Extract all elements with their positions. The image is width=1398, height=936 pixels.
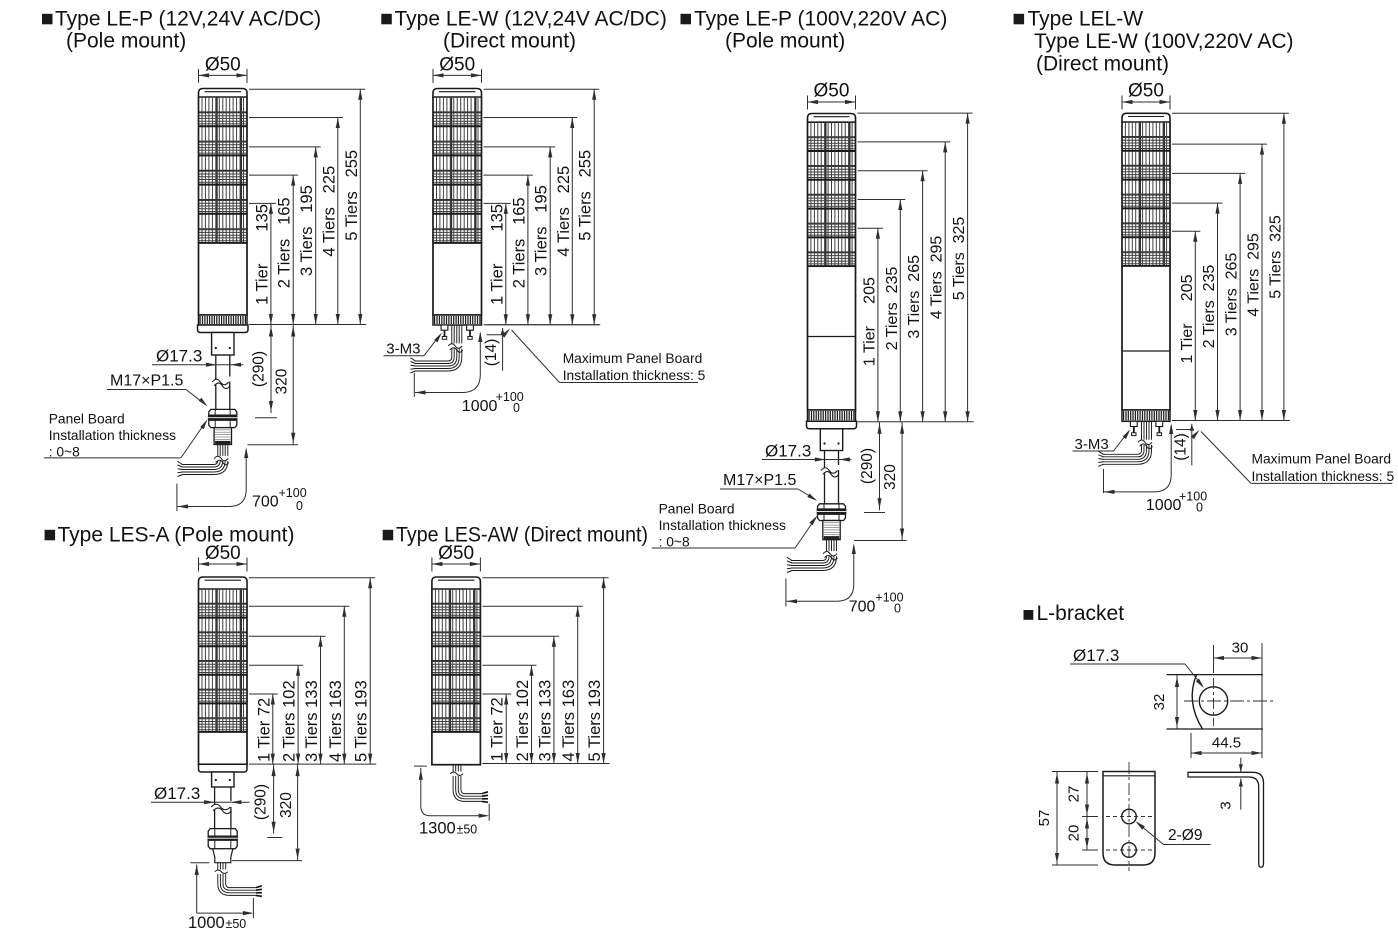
tower LE-W lower body xyxy=(433,243,482,315)
svg-text:(14): (14) xyxy=(1172,433,1189,461)
svg-text:2 Tiers 235: 2 Tiers 235 xyxy=(1201,265,1218,349)
dimension 1300±50 cable length LES-AW xyxy=(414,766,489,837)
tower LES-AW cap xyxy=(432,577,481,589)
svg-text:1 Tier 72: 1 Tier 72 xyxy=(255,698,273,762)
svg-text:M17×P1.5: M17×P1.5 xyxy=(723,472,796,489)
dimension 320 LE-P xyxy=(248,325,299,445)
svg-text:Installation thickness: Installation thickness xyxy=(659,518,786,533)
dimension Ø50 top diameter LES-AW xyxy=(432,543,481,572)
svg-text:4 Tiers 225: 4 Tiers 225 xyxy=(320,166,338,257)
tower LES-A 5 hatched tiers xyxy=(199,589,248,732)
svg-text:(290): (290) xyxy=(251,351,268,387)
svg-text:(290): (290) xyxy=(859,448,876,484)
tier height dimensions LE-P xyxy=(249,89,366,324)
svg-text:(Pole mount): (Pole mount) xyxy=(66,30,186,53)
mounting pole LES-A with break xyxy=(211,787,232,829)
tower LE-P lower body xyxy=(199,243,248,315)
svg-text:4 Tiers 225: 4 Tiers 225 xyxy=(555,166,573,257)
svg-text:3: 3 xyxy=(1218,801,1235,809)
svg-text:27: 27 xyxy=(1066,786,1083,803)
svg-text:57: 57 xyxy=(1036,810,1053,827)
svg-text:Ø50: Ø50 xyxy=(205,55,241,76)
dimension (14) below panel LEL-W xyxy=(1172,421,1289,466)
tower LE-W 5 hatched tiers xyxy=(433,97,482,243)
svg-text:320: 320 xyxy=(882,464,899,490)
tower LE-P base skirt xyxy=(198,325,249,333)
threaded stub LE-P xyxy=(214,428,231,445)
label Maximum Panel Board Installation thickness 5 LE-W xyxy=(501,329,705,384)
svg-text:320: 320 xyxy=(274,368,291,394)
tower LE-P 220V lower body with joint line xyxy=(808,266,856,410)
svg-text:Installation thickness: 5: Installation thickness: 5 xyxy=(1252,469,1395,484)
svg-text:Maximum Panel Board: Maximum Panel Board xyxy=(563,351,703,366)
svg-text:(14): (14) xyxy=(483,339,500,367)
dimension (290) LE-P 220V xyxy=(859,422,885,513)
svg-text:4 Tiers 295: 4 Tiers 295 xyxy=(1246,233,1263,317)
svg-text:44.5: 44.5 xyxy=(1212,735,1241,752)
svg-text:Type LES-AW (Direct mount): Type LES-AW (Direct mount) xyxy=(396,524,648,547)
tower LES-AW 5 hatched tiers xyxy=(432,589,481,732)
dimension 700 +100/0 cable length LE-P 220V xyxy=(786,544,904,616)
cable bundle LE-W bending left xyxy=(411,325,466,373)
label Panel Board Installation thickness 0~8 LE-P 220V xyxy=(652,502,818,550)
svg-text:1 Tier 205: 1 Tier 205 xyxy=(1179,274,1196,363)
dimension Ø17.3 pole diameter LE-P xyxy=(152,347,243,367)
svg-text:±50: ±50 xyxy=(457,823,478,837)
mounting bolts 3-M3 LE-W xyxy=(441,325,473,339)
svg-text:Ø50: Ø50 xyxy=(439,55,475,76)
svg-text:Type LE-P (100V,220V AC): Type LE-P (100V,220V AC) xyxy=(694,8,947,31)
tier height dimensions LE-W xyxy=(484,89,601,324)
hex nut and washer LES-A xyxy=(208,829,239,849)
dimension Ø50 top diameter LE-P 220V xyxy=(808,81,856,110)
tower LE-P 5 hatched tiers xyxy=(199,97,248,243)
L-bracket front view centerlines xyxy=(1106,762,1152,871)
svg-text:Installation thickness: Installation thickness xyxy=(49,428,176,443)
svg-text:±50: ±50 xyxy=(226,917,247,931)
svg-text:2 Tiers 165: 2 Tiers 165 xyxy=(510,197,528,288)
tower LE-P 220V 5 hatched tiers xyxy=(808,122,856,266)
dimension 1000±50 cable length LES-A xyxy=(188,863,253,932)
label 3-M3 mounting screws LEL-W xyxy=(1073,429,1131,453)
svg-text:1 Tier 135: 1 Tier 135 xyxy=(488,204,506,305)
svg-text:0: 0 xyxy=(1196,501,1203,515)
label Panel Board Installation thickness 0~8 LE-P xyxy=(44,412,208,460)
dimension Ø50 top diameter LE-P xyxy=(199,55,248,83)
svg-text:3 Tiers 133: 3 Tiers 133 xyxy=(303,680,321,762)
dimension 20 bracket xyxy=(1066,817,1099,851)
svg-text:4 Tiers 163: 4 Tiers 163 xyxy=(327,680,345,762)
svg-text:2 Tiers 102: 2 Tiers 102 xyxy=(281,680,299,762)
cable bundle LES-A bending right xyxy=(215,863,262,897)
svg-text:Ø50: Ø50 xyxy=(814,81,850,102)
svg-text:5 Tiers 193: 5 Tiers 193 xyxy=(353,680,371,762)
dimension (14) below panel LE-W xyxy=(483,325,599,371)
svg-text:Type LEL-W: Type LEL-W xyxy=(1028,8,1144,31)
label M17×P1.5 thread spec LE-P xyxy=(107,373,208,407)
svg-text:1000: 1000 xyxy=(462,398,498,415)
svg-text:1000: 1000 xyxy=(1146,497,1182,514)
L-bracket front view plate xyxy=(1103,772,1155,866)
svg-text:5 Tiers 255: 5 Tiers 255 xyxy=(343,150,361,241)
svg-text:M17×P1.5: M17×P1.5 xyxy=(110,373,183,390)
svg-text:3-M3: 3-M3 xyxy=(1075,436,1109,453)
dimension 32 bracket xyxy=(1151,675,1179,729)
tower LES-AW lower body xyxy=(432,732,481,765)
label Maximum Panel Board Installation thickness 5 LEL-W xyxy=(1191,430,1395,484)
tower LEL-W cap xyxy=(1122,113,1170,122)
mounting bolts 3-M3 LEL-W xyxy=(1130,421,1162,435)
tower LE-P 220V cap xyxy=(808,114,856,123)
dimension 1000 +100/0 cable length LE-W xyxy=(414,332,524,416)
dimension Ø17.3 pole diameter LE-P 220V xyxy=(762,442,851,462)
tower LE-P 220V ribbed base band xyxy=(808,410,856,421)
svg-text:(Direct mount): (Direct mount) xyxy=(443,30,576,53)
svg-text:1000: 1000 xyxy=(188,914,225,932)
svg-text:0: 0 xyxy=(513,401,520,415)
svg-text:1300: 1300 xyxy=(419,820,456,838)
svg-text:(Pole mount): (Pole mount) xyxy=(725,30,845,53)
pole socket LE-P xyxy=(212,333,234,356)
svg-text:Type LE-P (12V,24V AC/DC): Type LE-P (12V,24V AC/DC) xyxy=(55,8,321,31)
svg-text:5 Tiers 255: 5 Tiers 255 xyxy=(577,150,595,241)
dimension 1000 +100/0 cable length LEL-W xyxy=(1104,424,1208,515)
svg-text:3 Tiers 265: 3 Tiers 265 xyxy=(1224,253,1241,337)
svg-text:3 Tiers 195: 3 Tiers 195 xyxy=(298,185,316,276)
threaded taper LES-A xyxy=(213,849,233,863)
threaded stub LE-P 220V xyxy=(823,521,840,540)
title L-bracket xyxy=(1024,602,1125,625)
tower LEL-W lower body with joint line xyxy=(1122,266,1170,410)
svg-text:Ø17.3: Ø17.3 xyxy=(156,347,202,366)
svg-text:Installation thickness: 5: Installation thickness: 5 xyxy=(563,368,706,383)
svg-text:5 Tiers 193: 5 Tiers 193 xyxy=(586,680,604,762)
dimension 320 LES-A xyxy=(232,764,302,861)
dimension (290) LES-A xyxy=(253,764,283,837)
title Type LES-AW Direct mount xyxy=(383,524,648,547)
svg-text:0: 0 xyxy=(894,602,901,616)
svg-text:Type LE-W (100V,220V AC): Type LE-W (100V,220V AC) xyxy=(1034,30,1294,53)
svg-text:3 Tiers 133: 3 Tiers 133 xyxy=(536,680,554,762)
svg-text:Ø17.3: Ø17.3 xyxy=(765,442,811,461)
svg-text:700: 700 xyxy=(849,599,876,616)
hex nut and washer LE-P 220V xyxy=(817,504,847,521)
title Type LES-A Pole mount xyxy=(45,524,295,547)
svg-text:3 Tiers 195: 3 Tiers 195 xyxy=(533,185,551,276)
tower LE-W ribbed base band xyxy=(433,315,482,325)
svg-text:Panel Board: Panel Board xyxy=(659,502,735,517)
svg-text:: 0~8: : 0~8 xyxy=(49,445,80,460)
tower LES-A base skirt xyxy=(199,764,248,772)
dimension Ø50 top diameter LES-A xyxy=(199,543,248,572)
cable bundle LEL-W bending left xyxy=(1098,421,1155,466)
svg-text:320: 320 xyxy=(278,792,295,818)
svg-text:(290): (290) xyxy=(253,784,270,820)
svg-text:3-M3: 3-M3 xyxy=(386,341,420,358)
tower LES-A lower body xyxy=(199,732,248,764)
L-bracket side view profile xyxy=(1188,772,1264,867)
dimension 3 bracket thickness xyxy=(1218,758,1243,810)
svg-text:4 Tiers 163: 4 Tiers 163 xyxy=(560,680,578,762)
mounting pole LE-P with break xyxy=(212,355,230,409)
dimension 27 bracket xyxy=(1066,772,1099,817)
hex nut and washer LE-P xyxy=(208,409,238,427)
dimension Ø50 top diameter LE-W xyxy=(433,55,482,83)
L-bracket front view holes 2-Ø9 xyxy=(1122,809,1137,857)
svg-text:1 Tier 205: 1 Tier 205 xyxy=(861,277,878,366)
svg-text:3 Tiers 265: 3 Tiers 265 xyxy=(906,255,923,339)
svg-text:Ø17.3: Ø17.3 xyxy=(154,784,200,803)
L-bracket top view hole Ø17.3 xyxy=(1199,687,1227,715)
svg-text:5 Tiers 325: 5 Tiers 325 xyxy=(951,217,968,301)
cable bundle LE-P bending left xyxy=(178,445,232,477)
svg-text:2 Tiers 102: 2 Tiers 102 xyxy=(514,680,532,762)
svg-text:Type LES-A (Pole mount): Type LES-A (Pole mount) xyxy=(58,524,295,547)
svg-text:1 Tier 135: 1 Tier 135 xyxy=(253,204,271,305)
svg-text:20: 20 xyxy=(1066,825,1083,842)
L-bracket top view centerlines xyxy=(1184,678,1274,726)
svg-text:L-bracket: L-bracket xyxy=(1037,602,1125,625)
dimension (290) LE-P xyxy=(251,325,278,418)
tower LE-P 220V base skirt xyxy=(807,421,857,429)
title Type LE-P (100V,220V AC) Pole mount xyxy=(681,8,948,53)
dimension 700 +100/0 cable length LE-P xyxy=(177,448,307,514)
svg-text:4 Tiers 295: 4 Tiers 295 xyxy=(929,236,946,320)
pole adapter LES-A xyxy=(212,772,234,787)
cable bundle LES-AW bending right xyxy=(450,765,488,803)
label Ø17.3 bracket hole xyxy=(1070,646,1204,688)
svg-text:+100: +100 xyxy=(279,486,307,500)
svg-text:2-Ø9: 2-Ø9 xyxy=(1168,827,1202,844)
pole socket LE-P 220V xyxy=(820,429,842,451)
svg-text:2 Tiers 165: 2 Tiers 165 xyxy=(276,197,294,288)
tier height dimensions LES-A xyxy=(249,578,376,764)
svg-text:700: 700 xyxy=(252,494,279,511)
dimension 30 bracket xyxy=(1214,640,1263,759)
tier height dimensions LES-AW xyxy=(482,578,609,764)
svg-text:Ø50: Ø50 xyxy=(205,543,241,564)
label 3-M3 mounting screws LE-W xyxy=(384,333,442,358)
cable bundle LE-P 220V bending left xyxy=(787,540,840,573)
svg-text:Ø17.3: Ø17.3 xyxy=(1073,646,1119,665)
svg-text:2 Tiers 235: 2 Tiers 235 xyxy=(884,267,901,351)
svg-text:Type LE-W (12V,24V AC/DC): Type LE-W (12V,24V AC/DC) xyxy=(395,8,667,31)
tier height dimensions LE-P 220V xyxy=(858,113,974,422)
label 2-Ø9 bracket holes xyxy=(1136,821,1211,844)
title Type LE-P (12V,24V AC/DC) Pole mount xyxy=(42,8,321,53)
svg-text:1 Tier 72: 1 Tier 72 xyxy=(489,697,507,761)
dimension Ø50 top diameter LEL-W xyxy=(1122,81,1170,110)
dimension Ø17.3 pole diameter LES-A xyxy=(151,784,250,804)
tower LE-P ribbed base band xyxy=(199,315,248,325)
svg-text:0: 0 xyxy=(296,499,303,513)
svg-text:30: 30 xyxy=(1232,640,1249,657)
dimension 44.5 bracket xyxy=(1191,733,1262,758)
tower LE-W cap xyxy=(433,89,482,98)
svg-text:5 Tiers 325: 5 Tiers 325 xyxy=(1267,215,1284,299)
tower LEL-W ribbed base band xyxy=(1122,410,1170,421)
svg-text:32: 32 xyxy=(1151,694,1168,711)
svg-text:Ø50: Ø50 xyxy=(1128,81,1164,102)
dimension 320 LE-P 220V xyxy=(854,422,907,541)
mounting pole LE-P 220V with break xyxy=(821,451,839,504)
svg-text:: 0~8: : 0~8 xyxy=(659,535,690,550)
tower LEL-W 5 hatched tiers xyxy=(1122,122,1170,266)
tower LES-A cap xyxy=(199,577,248,589)
title Type LEL-W / Type LE-W (100V,220V AC) Direct mount xyxy=(1014,8,1294,76)
title Type LE-W (12V,24V AC/DC) Direct mount xyxy=(381,8,667,53)
tower LE-P cap xyxy=(199,89,248,98)
svg-text:Ø50: Ø50 xyxy=(438,543,474,564)
tier height dimensions LEL-W xyxy=(1172,113,1290,420)
L-bracket top view plate edges xyxy=(1167,675,1264,729)
dimension 57 bracket xyxy=(1036,772,1098,866)
svg-text:Maximum Panel Board: Maximum Panel Board xyxy=(1252,452,1392,467)
svg-text:Panel Board: Panel Board xyxy=(49,412,125,427)
svg-text:(Direct mount): (Direct mount) xyxy=(1036,53,1169,76)
label M17×P1.5 thread spec LE-P 220V xyxy=(720,472,817,501)
